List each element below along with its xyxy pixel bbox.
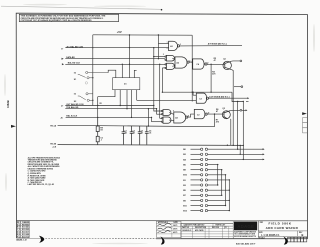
IC bottom pin 5 [136, 90, 138, 101]
svg-text:1: 1 [167, 42, 168, 44]
wire line2 DATA BD [65, 58, 165, 60]
feedback vertical from B2 to bus [161, 68, 163, 92]
svg-text:Z1: Z1 [124, 84, 127, 86]
svg-text:REV: REV [260, 222, 264, 224]
wire y101.5 to connector bus [232, 92, 243, 101]
bypass capacitor C2 [130, 126, 134, 145]
nor gate C1b [162, 117, 171, 123]
svg-text:C2: C2 [197, 114, 200, 116]
svg-text:.01: .01 [125, 133, 128, 135]
svg-text:+5V: +5V [117, 30, 122, 34]
svg-text:F 12: F 12 [17, 236, 20, 238]
connector row 10 [191, 194, 222, 196]
junction dots switch bus [92, 34, 130, 101]
svg-text:TB-1B: TB-1B [50, 144, 56, 146]
connector row 13 [191, 209, 230, 211]
svg-text:C3: C3 [199, 98, 202, 100]
rail TB-1B [58, 144, 244, 147]
right border match arrow [302, 112, 307, 115]
stub output pad y86.7 [234, 86, 241, 88]
svg-text:DESCRIPTION: DESCRIPTION [195, 227, 207, 229]
svg-text:B13: B13 [183, 211, 188, 213]
svg-text:5: 5 [163, 54, 164, 56]
left border match arrow [11, 125, 16, 128]
wire C3 output A/T MODE [209, 97, 248, 99]
svg-text:B3: B3 [183, 185, 186, 187]
svg-text:EQUIPMENT CORPORATION: EQUIPMENT CORPORATION [234, 230, 257, 233]
wire line3 BAL BD CLK [65, 63, 165, 65]
svg-text:ADAGE: ADAGE [237, 224, 254, 229]
connector row 11 [191, 199, 230, 201]
svg-text:DATA BD: DATA BD [66, 56, 75, 59]
svg-text:QTY: QTY [224, 227, 228, 229]
svg-text:C4: C4 [196, 63, 199, 66]
logo dark plate [234, 222, 257, 231]
svg-text:B6: B6 [183, 165, 186, 167]
nor gate B2 [165, 63, 175, 69]
svg-text:47: 47 [216, 110, 218, 113]
IC top pin step from S1 [108, 70, 116, 78]
line5 branch vertical to rail A [147, 109, 149, 126]
wire Q2 emitter down [230, 119, 232, 145]
wire line1 J1C BAL BD CON [65, 47, 168, 49]
transistor Q2 [222, 111, 230, 119]
wire Q1 emitter down [232, 70, 234, 146]
right border rev boxes [303, 118, 308, 133]
signature scribbles [158, 223, 172, 232]
svg-text:B10: B10 [183, 175, 188, 177]
svg-text:.01: .01 [133, 133, 136, 135]
connector row 5 [191, 169, 222, 171]
bypass capacitor C4 [145, 126, 149, 144]
connector row 2 [191, 153, 265, 155]
RC chain R8/C5 [96, 117, 99, 144]
connector bus vertical from rail B [239, 145, 241, 154]
connector bus vertical 1 [217, 165, 219, 185]
pad Q2 collector [240, 109, 242, 111]
svg-text:E41 941-AN2 J09 T: E41 941-AN2 J09 T [236, 243, 256, 246]
svg-text:15: 15 [74, 94, 77, 96]
and gate A3 [174, 112, 188, 123]
wire Q1 collector out [231, 60, 240, 62]
+5V rail right drop (long vertical feed) [191, 35, 193, 101]
resistor R7 470 (vertical) [214, 114, 216, 127]
junction long vertical at A2 out [192, 61, 193, 62]
title strip top line [16, 220, 307, 222]
svg-text:ECO 710: ECO 710 [22, 236, 29, 238]
switch S1 ghost contact [85, 82, 87, 84]
IC top pin 4 stub [134, 70, 136, 77]
svg-text:BAL BD CLK: BAL BD CLK [68, 62, 81, 65]
svg-text:J1C BAL BD CON: J1C BAL BD CON [66, 46, 83, 49]
left vertical to RC chain [97, 97, 99, 118]
svg-text:B8: B8 [183, 170, 186, 172]
bypass capacitor C1 [122, 126, 126, 144]
bypass capacitor C3 [138, 126, 142, 144]
transistor Q1 [223, 61, 232, 69]
bottom border right segment [156, 238, 308, 240]
svg-text:COPYRIGHT 1971 BY ADAGE EQUIPM: COPYRIGHT 1971 BY ADAGE EQUIPMENT CORP. … [21, 19, 92, 22]
connector bus vertical 2 [221, 170, 223, 196]
wire C4 out to Q1 base [207, 63, 225, 65]
svg-text:B5: B5 [183, 190, 186, 192]
wire A3 out to C2 [188, 114, 194, 117]
svg-text:A3: A3 [175, 116, 178, 119]
svg-text:ADD CARD: ADD CARD [195, 229, 204, 232]
svg-text:470: 470 [212, 72, 215, 75]
svg-text:3/4/71: 3/4/71 [173, 224, 178, 227]
buffer gate C3 [196, 93, 208, 103]
line3 pin mark [62, 63, 64, 65]
IC bottom pin 4 [131, 90, 133, 118]
svg-text:16: 16 [74, 72, 77, 74]
svg-text:A/T MODE (BD N.C.): A/T MODE (BD N.C.) [210, 96, 229, 99]
wire Q2 collector out [230, 109, 240, 111]
svg-text:J5: J5 [60, 117, 63, 119]
IC top pin 3 (to line3 and +5V) [129, 48, 131, 77]
IC pin junction dots [122, 64, 131, 65]
svg-text:A/T MODE (BD N.C.): A/T MODE (BD N.C.) [208, 43, 227, 46]
buffer gate C4 [193, 59, 207, 69]
svg-text:SCALE: SCALE [259, 236, 266, 239]
svg-text:QUANTITY PER DASH NO: QUANTITY PER DASH NO [184, 224, 205, 227]
svg-text:PARTS LIST: PARTS LIST [216, 224, 227, 227]
resistor R4 470 (vertical) [210, 64, 212, 92]
scan noise smudges [1, 6, 161, 9]
connector bus vertical 4 [228, 180, 230, 211]
svg-text:3/9/71: 3/9/71 [173, 229, 178, 231]
IC top pin 2 [121, 64, 123, 77]
connector row 12 [191, 204, 226, 206]
wire C2 out to Q2 base [207, 113, 224, 115]
svg-text:OUT BAL BD CON: OUT BAL BD CON [66, 103, 84, 106]
svg-text:B11: B11 [183, 205, 187, 207]
svg-text:A2: A2 [176, 61, 179, 64]
svg-text:.01: .01 [149, 133, 152, 135]
junction Q2 base/R7 [214, 113, 215, 114]
connector row 9 [191, 189, 230, 191]
connector row 7 [191, 179, 230, 181]
svg-text:LAST REF DES: R9, C5, Q2, A3: LAST REF DES: R9, C5, Q2, A3 [28, 183, 54, 186]
IC bottom pin dots [120, 105, 133, 118]
svg-text:470: 470 [216, 120, 219, 123]
nor gate B1 [165, 55, 175, 61]
note box (general notes, top-left) [19, 14, 118, 22]
svg-text:BAL B-CLK: BAL B-CLK [66, 115, 77, 118]
svg-text:TRK BAL BD: TRK BAL BD [66, 106, 79, 109]
svg-text:B4: B4 [183, 158, 186, 161]
wire A1 output A/T MODE [180, 45, 242, 47]
connector row 1 [191, 148, 265, 150]
wire A2 out to C4 [189, 61, 193, 63]
switch S1 [78, 71, 108, 79]
scan wedge mark 2 [160, 237, 164, 245]
IC bottom pin 3 [126, 90, 128, 109]
svg-text:10024035-01: 10024035-01 [182, 229, 192, 232]
C3 input feeds [137, 92, 197, 100]
connector row 3 [191, 158, 265, 160]
wire line4 OUT BAL BD CON [65, 106, 161, 112]
IC Z1 [113, 78, 140, 90]
+5V rail left drop to switch bus [92, 35, 94, 106]
connector row 8 [191, 184, 218, 186]
wire line6 BAL B-CLK [66, 116, 152, 118]
svg-text:17: 17 [61, 48, 64, 50]
pad C3 out [247, 97, 249, 99]
gate feed verticals from top area [152, 43, 165, 121]
svg-text:B1: B1 [183, 180, 186, 182]
svg-text:B7: B7 [183, 195, 186, 197]
svg-text:REF DES: REF DES [212, 227, 219, 229]
svg-text:ADD CARD WAFER: ADD CARD WAFER [266, 226, 299, 230]
scan wedge mark 1 [39, 236, 44, 243]
junction Q1 base/R4 [210, 64, 211, 65]
svg-text:A1: A1 [170, 45, 173, 48]
svg-text:CE: CE [99, 103, 102, 105]
nor gate C1a [162, 110, 171, 116]
svg-text:TB-1A: TB-1A [50, 124, 56, 127]
rail TB-1A [58, 125, 215, 126]
bus wire y92 [162, 91, 232, 93]
buffer gate C2 [194, 109, 207, 118]
svg-text:Q2: Q2 [222, 108, 225, 110]
gate pin number specks [163, 42, 210, 117]
bottom border dashed middle segment [43, 238, 157, 240]
connector row 4 [191, 163, 218, 165]
connector bus vertical 3 [225, 175, 227, 206]
junction dots on rails [227, 145, 234, 147]
bus y92 junction dots [162, 92, 212, 93]
wire line5 [65, 108, 156, 110]
stray ink dot above top border [161, 9, 163, 11]
gate B outputs into A2 [172, 58, 175, 66]
svg-text:1K: 1K [100, 129, 103, 131]
pad Q1 collector [240, 60, 242, 62]
connector row 6 [191, 174, 226, 176]
svg-text:PART NO: PART NO [182, 226, 190, 229]
switch S2 [78, 93, 93, 102]
svg-text:J7: J7 [61, 106, 64, 108]
svg-text:4462B-1 J2: 4462B-1 J2 [16, 239, 27, 242]
svg-text:+5.8: +5.8 [52, 146, 57, 148]
svg-text:47: 47 [214, 59, 216, 62]
+5V rail [93, 34, 192, 36]
nand gate A1 [169, 41, 180, 50]
IC bottom pin 1 [98, 90, 115, 97]
and gate A2 [175, 57, 189, 68]
IC bottom pin 2 [119, 90, 121, 106]
svg-text:B0: B0 [183, 149, 186, 151]
line2 pin mark [62, 58, 64, 60]
svg-text:C: CAPACITOR, MFD: C: CAPACITOR, MFD [28, 170, 47, 173]
scan wedge mark 3 [283, 237, 287, 245]
svg-text:10: 10 [208, 112, 210, 114]
gate C1 outputs into A3 [169, 113, 174, 121]
svg-text:4462B: 4462B [6, 100, 10, 108]
svg-text:Q1: Q1 [223, 58, 226, 60]
bottom border left segment [17, 237, 43, 239]
svg-text:S1: S1 [74, 79, 77, 81]
nand A1 input stubs [158, 35, 168, 43]
scale comb bar [288, 237, 307, 242]
wire line1 pull-up vertical [129, 35, 131, 48]
svg-text:4/2/71: 4/2/71 [173, 231, 178, 234]
verticals down to connector rows [237, 102, 239, 150]
svg-text:2: 2 [167, 48, 168, 50]
svg-text:.01: .01 [141, 133, 144, 135]
stub output pad y103.4 [246, 101, 249, 103]
svg-text:B2: B2 [183, 154, 186, 156]
svg-text:.1: .1 [100, 140, 102, 142]
svg-text:B9: B9 [183, 200, 186, 202]
